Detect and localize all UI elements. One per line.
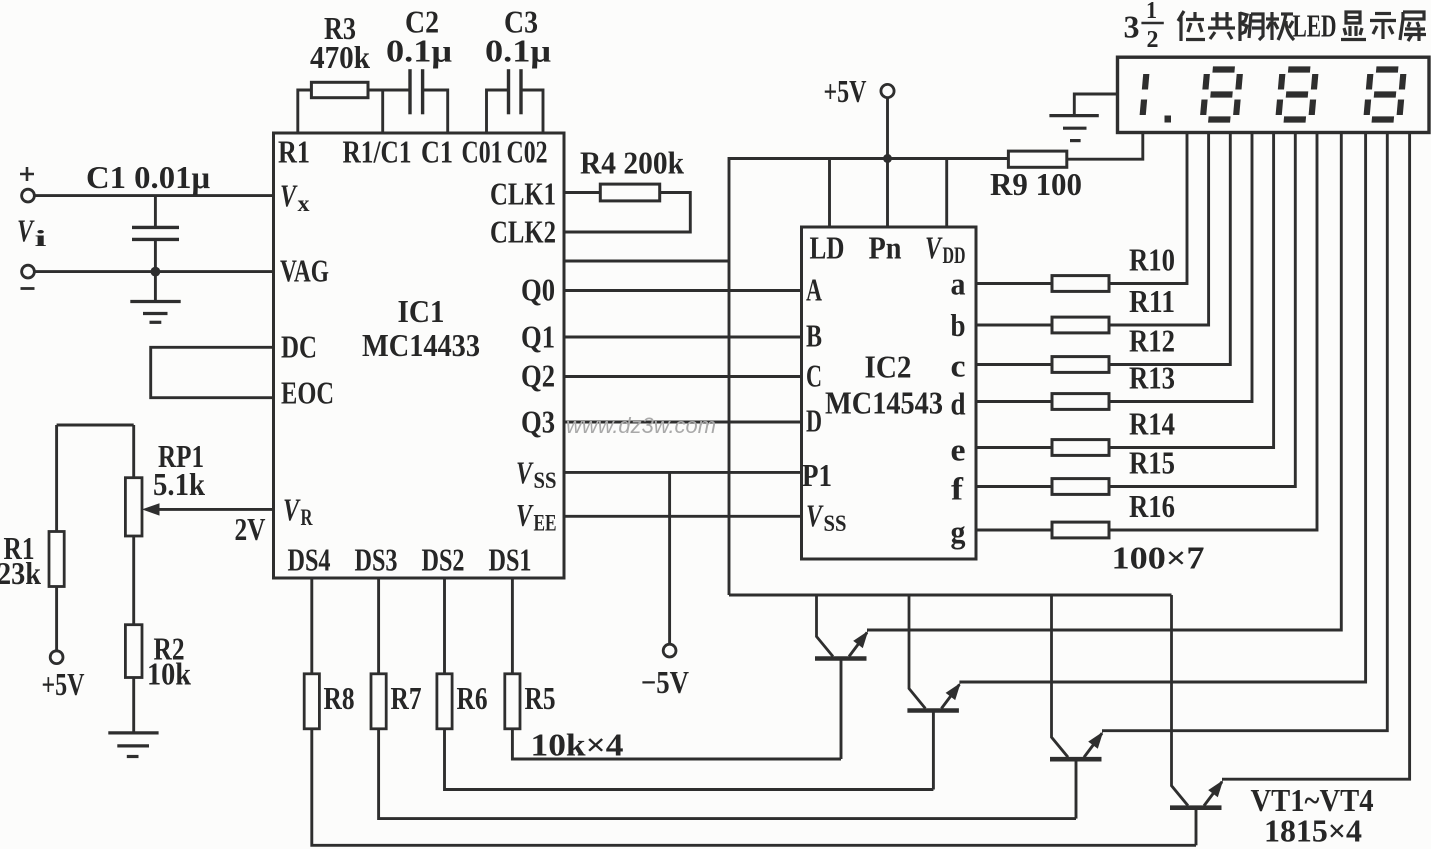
wire R12 to display xyxy=(1109,133,1230,365)
wire DS to R7 xyxy=(377,578,380,674)
svg-text:DS3: DS3 xyxy=(355,542,398,578)
wire +5V terminal to rail xyxy=(886,98,889,159)
transistor VT4 (Q 1815) xyxy=(1170,595,1223,808)
svg-text:C01: C01 xyxy=(462,134,503,170)
wire Q1 to B xyxy=(564,336,802,339)
wire R4 to CLK2 xyxy=(564,193,690,233)
resistor R12 xyxy=(976,363,1052,366)
svg-text:C1 0.01μ: C1 0.01μ xyxy=(86,159,210,195)
svg-text:e: e xyxy=(951,432,966,468)
resistor R6 xyxy=(437,674,452,729)
svg-text:R14: R14 xyxy=(1129,406,1175,442)
svg-text:R10: R10 xyxy=(1129,242,1175,278)
svg-text:a: a xyxy=(951,266,966,302)
svg-text:DD: DD xyxy=(943,243,966,268)
svg-text:Pn: Pn xyxy=(869,230,902,266)
svg-text:100×7: 100×7 xyxy=(1112,540,1205,576)
wire R11 to display xyxy=(1109,133,1209,326)
svg-text:P1: P1 xyxy=(802,457,832,493)
svg-text:b: b xyxy=(951,307,966,343)
svg-text:V: V xyxy=(283,492,301,528)
svg-text:V: V xyxy=(925,230,943,266)
display digit 8 (first) xyxy=(1203,70,1240,120)
svg-text:MC14543: MC14543 xyxy=(825,385,943,421)
svg-text:470k: 470k xyxy=(310,39,370,75)
svg-text:R1: R1 xyxy=(278,134,310,170)
op-amp IC2 MC14543 box xyxy=(802,227,977,559)
terminal - (Vi negative input) xyxy=(22,265,35,278)
wire R9 to display xyxy=(1067,133,1143,160)
svg-text:DS1: DS1 xyxy=(489,542,532,578)
wire R14 to display xyxy=(1109,133,1274,448)
svg-text:0.1μ: 0.1μ xyxy=(485,33,551,69)
wire Vi- to VAG xyxy=(34,270,273,273)
wire CLK1 to R4 xyxy=(564,191,600,194)
svg-text:LD: LD xyxy=(810,230,845,266)
wire emitter of VT2 (Q 1815) to display xyxy=(959,133,1365,683)
svg-text:i: i xyxy=(35,226,48,251)
wire display to ground xyxy=(1074,94,1117,116)
resistor R14 xyxy=(976,446,1052,449)
transistor VT3 (Q 1815) xyxy=(1050,595,1103,759)
wire Q0 to A xyxy=(564,289,802,292)
wire R5 to transistor base xyxy=(512,729,841,759)
wire R8 to transistor base xyxy=(312,729,1196,846)
display digit 8 (third) xyxy=(1366,70,1403,120)
svg-text:D: D xyxy=(806,403,822,439)
svg-text:x: x xyxy=(298,191,311,216)
svg-text:C: C xyxy=(806,358,822,394)
wire emitter of VT1 (Q 1815) to display xyxy=(867,133,1341,631)
svg-text:R4 200k: R4 200k xyxy=(580,145,684,181)
svg-text:V: V xyxy=(516,455,534,491)
svg-text:f: f xyxy=(951,471,963,507)
label title char gong xyxy=(1208,12,1235,39)
junction dot at C1/VAG xyxy=(151,267,161,277)
potentiometer RP1 xyxy=(132,425,135,478)
wire C2 to C1 pin xyxy=(423,90,448,133)
svg-text:R9 100: R9 100 xyxy=(990,166,1082,202)
display digit 8 (second) xyxy=(1278,70,1315,120)
capacitor C2 xyxy=(408,69,411,114)
svg-text:2: 2 xyxy=(1147,27,1159,53)
terminal -5V xyxy=(663,644,676,657)
wire VEE to VSS of IC2 xyxy=(564,515,802,518)
svg-text:Q1: Q1 xyxy=(521,319,555,355)
wire base of VT2 (Q 1815) xyxy=(932,711,935,790)
wire Pn riser xyxy=(886,159,889,228)
svg-text:C1: C1 xyxy=(421,134,453,170)
wire VDD riser (IC2) xyxy=(945,159,948,228)
wire C3 to C02 pin xyxy=(521,90,543,133)
svg-text:VAG: VAG xyxy=(280,253,329,289)
wire base of VT1 (Q 1815) xyxy=(840,659,843,760)
wire DS to R5 xyxy=(511,578,514,674)
svg-text:CLK2: CLK2 xyxy=(490,214,556,250)
svg-text:Q2: Q2 xyxy=(521,358,555,394)
ground (R2) xyxy=(108,731,158,734)
resistor R4 xyxy=(600,184,659,201)
resistor R11 xyxy=(976,324,1052,327)
wire base of VT4 (Q 1815) xyxy=(1195,808,1198,846)
resistor R9 xyxy=(1008,151,1066,167)
wire R15 to display xyxy=(1109,133,1295,487)
wire +5V rail xyxy=(729,159,1008,596)
svg-text:R7: R7 xyxy=(391,680,422,716)
svg-text:V: V xyxy=(280,178,298,214)
label title char xian xyxy=(1341,12,1366,40)
svg-text:EE: EE xyxy=(534,511,557,536)
wire R16 to display xyxy=(1109,133,1317,531)
wire DS to R6 xyxy=(443,578,446,674)
terminal +5V (top) xyxy=(881,84,894,97)
svg-text:V: V xyxy=(806,498,824,534)
svg-text:CLK1: CLK1 xyxy=(490,176,556,212)
svg-text:DC: DC xyxy=(281,329,317,365)
resistor R1 xyxy=(55,425,58,532)
resistor R3 xyxy=(311,82,368,97)
wire to -5V terminal xyxy=(668,472,671,644)
LED display box xyxy=(1118,57,1430,132)
wire collector rail from +5V xyxy=(729,594,1172,597)
wire R1 pin riser xyxy=(298,90,312,133)
wire R1/C1 pin riser xyxy=(381,90,384,133)
wire DS to R8 xyxy=(310,578,313,674)
resistor R8 xyxy=(304,674,319,729)
ground (display) xyxy=(1049,114,1098,117)
label title char shi xyxy=(1370,14,1396,40)
wire R1 top to RP1 top xyxy=(57,424,134,427)
svg-text:SS: SS xyxy=(824,511,847,536)
resistor R16 xyxy=(976,529,1052,532)
svg-text:d: d xyxy=(951,386,966,422)
svg-text:IC2: IC2 xyxy=(865,349,912,385)
resistor R7 xyxy=(371,674,386,729)
svg-text:1: 1 xyxy=(1146,0,1157,24)
svg-text:c: c xyxy=(951,348,966,384)
svg-text:R1/C1: R1/C1 xyxy=(343,134,412,170)
wire R10 to display xyxy=(1109,133,1187,284)
svg-text:+5V: +5V xyxy=(42,666,85,702)
svg-text:B: B xyxy=(806,318,822,354)
svg-text:R13: R13 xyxy=(1129,360,1175,396)
resistor R10 xyxy=(976,282,1052,285)
svg-text:IC1: IC1 xyxy=(398,293,445,329)
wire Q2 to C xyxy=(564,375,802,378)
svg-text:−5V: −5V xyxy=(641,664,689,700)
svg-text:R5: R5 xyxy=(525,680,556,716)
wire VR to RP1 wiper with arrow xyxy=(157,508,274,511)
svg-text:R12: R12 xyxy=(1129,323,1175,359)
svg-text:+5V: +5V xyxy=(824,73,867,109)
svg-text:R15: R15 xyxy=(1129,445,1175,481)
transistor VT2 (Q 1815) xyxy=(907,595,960,711)
junction dot +5V rail xyxy=(883,154,892,163)
terminal +5V (left) xyxy=(50,651,63,664)
wire R6 to transistor base xyxy=(445,729,934,790)
svg-text:DS4: DS4 xyxy=(288,542,331,578)
wire C01 pin riser xyxy=(487,90,509,133)
label title char ping xyxy=(1400,12,1426,41)
wire R13 to display xyxy=(1109,133,1252,402)
resistor R15 xyxy=(976,485,1052,488)
svg-text:R16: R16 xyxy=(1129,488,1175,524)
svg-text:1815×4: 1815×4 xyxy=(1264,813,1362,849)
wire base of VT3 (Q 1815) xyxy=(1075,759,1078,818)
svg-text:R11: R11 xyxy=(1129,283,1175,319)
svg-text:A: A xyxy=(806,272,822,308)
wire LD riser xyxy=(828,159,831,228)
svg-text:10k×4: 10k×4 xyxy=(531,727,624,763)
capacitor C1 xyxy=(154,196,157,226)
label title char wei xyxy=(1178,11,1205,41)
svg-text:5.1k: 5.1k xyxy=(153,466,205,502)
svg-text:2V: 2V xyxy=(235,511,266,547)
svg-text:Q3: Q3 xyxy=(521,404,555,440)
display decimal point xyxy=(1165,116,1172,123)
ground (input) xyxy=(154,272,157,301)
op-amp IC1 MC14433 box xyxy=(274,133,565,578)
resistor R5 xyxy=(505,674,520,729)
svg-text:MC14433: MC14433 xyxy=(362,327,480,363)
capacitor C3 xyxy=(507,69,510,114)
svg-text:R: R xyxy=(301,505,313,530)
svg-text:SS: SS xyxy=(534,468,557,493)
svg-text:LED: LED xyxy=(1293,8,1337,44)
svg-text:C02: C02 xyxy=(507,134,548,170)
wire emitter of VT3 (Q 1815) to display xyxy=(1102,133,1387,731)
svg-text:23k: 23k xyxy=(0,555,41,591)
wire R7 to transistor base xyxy=(379,729,1076,819)
svg-text:0.1μ: 0.1μ xyxy=(386,33,452,69)
wire Vi+ to Vx xyxy=(34,194,273,197)
wire R3 to C2 xyxy=(368,89,410,92)
label title char ji xyxy=(1266,12,1294,40)
resistor R2 xyxy=(125,625,142,678)
wire DC-EOC loop xyxy=(151,347,274,397)
wire emitter of VT4 (Q 1815) to display xyxy=(1222,133,1410,780)
wire Q3 to D xyxy=(564,421,802,424)
transistor VT1 (Q 1815) xyxy=(815,595,868,659)
svg-text:www.dz3w.com: www.dz3w.com xyxy=(566,413,716,438)
svg-text:R8: R8 xyxy=(324,680,355,716)
label title char yin xyxy=(1240,12,1263,41)
svg-text:Q0: Q0 xyxy=(521,272,555,308)
svg-text:10k: 10k xyxy=(147,656,191,692)
resistor R13 xyxy=(976,400,1052,403)
svg-text:R6: R6 xyxy=(457,680,488,716)
display digit 1 xyxy=(1143,74,1147,115)
svg-text:V: V xyxy=(516,497,534,533)
wire VDD of IC1 to +5V xyxy=(564,260,729,263)
svg-text:DS2: DS2 xyxy=(422,542,465,578)
wire VSS to P1 xyxy=(564,471,802,474)
svg-text:EOC: EOC xyxy=(281,375,334,411)
svg-text:3: 3 xyxy=(1124,9,1140,45)
terminal + (Vi positive input) xyxy=(22,189,35,202)
svg-text:g: g xyxy=(951,514,966,550)
svg-text:V: V xyxy=(17,213,35,249)
